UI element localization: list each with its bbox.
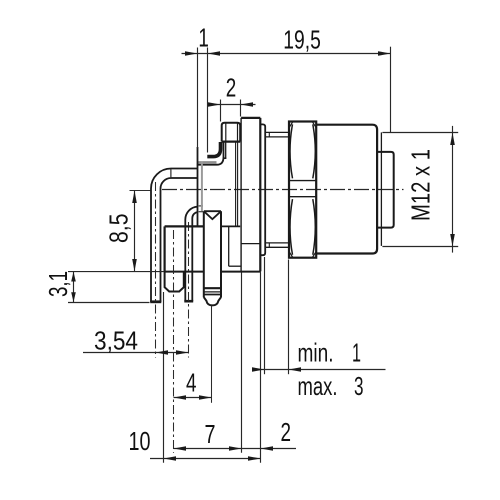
svg-text:3,1: 3,1 xyxy=(43,271,73,297)
insulator block left face xyxy=(164,226,166,271)
svg-text:M12 x 1: M12 x 1 xyxy=(406,149,436,221)
svg-text:1: 1 xyxy=(352,338,361,368)
front threaded body outline xyxy=(316,125,377,254)
arrow 10 right pointing right xyxy=(248,456,261,461)
neck junction ticks xyxy=(268,132,270,137)
hidden grey edge right of face xyxy=(201,162,203,212)
rear step small rect right of pin xyxy=(228,226,230,266)
dim 8,5 vertical line xyxy=(134,191,136,272)
ext line 1-left xyxy=(197,48,199,149)
svg-text:19,5: 19,5 xyxy=(283,24,321,54)
arrow 3,1 top pointing up xyxy=(71,272,76,282)
arrow 8,5 bottom pointing down xyxy=(132,259,137,272)
pin P2 bottom cap xyxy=(184,300,193,303)
bracket grey seam xyxy=(198,161,217,164)
arrow 3,1 bottom pointing down xyxy=(71,292,76,302)
insulator bottom edge thick xyxy=(164,271,203,273)
dim 2 top line xyxy=(208,104,256,106)
ext line 19,5-right xyxy=(390,47,392,132)
pin P2 centerline dash-dot xyxy=(188,222,190,358)
svg-text:10: 10 xyxy=(129,426,151,456)
ext line 2-left xyxy=(220,100,222,122)
neck double lines bottom xyxy=(265,242,289,244)
neck double lines top xyxy=(265,131,289,133)
dim M12 vertical line xyxy=(452,126,454,253)
arrow 8,5 top pointing up xyxy=(132,191,137,204)
dim 3,54 line xyxy=(83,352,189,354)
svg-text:max.: max. xyxy=(298,371,338,401)
dim min/max line xyxy=(252,369,386,371)
svg-text:8,5: 8,5 xyxy=(104,214,134,244)
arrow shared 1-right / 19,5-left pointing left xyxy=(208,51,221,56)
ext min/max left (lip face) xyxy=(264,257,266,374)
svg-text:3,54: 3,54 xyxy=(94,326,138,356)
arrow 19,5-right pointing right xyxy=(378,51,391,56)
arrow 2top-right outside pointing left xyxy=(241,102,254,107)
svg-text:min.: min. xyxy=(298,338,334,368)
hex nut facet lines xyxy=(289,180,316,182)
flange top edge xyxy=(241,117,260,119)
arrow 2top-left outside pointing right xyxy=(208,102,221,107)
arrow 7 left pointing left xyxy=(174,446,187,451)
bracket channel inner thick wall xyxy=(207,142,220,157)
ext min/max right (nut face) xyxy=(288,260,290,375)
arrow 4 left pointing left xyxy=(174,395,187,400)
pin P2 bent contact inner edge xyxy=(192,212,197,301)
bar tab-to-flange thin pair xyxy=(235,142,237,227)
svg-text:4: 4 xyxy=(186,368,197,398)
ext M12 top xyxy=(382,132,458,134)
shell front face vertical xyxy=(197,147,199,226)
dim 4 line xyxy=(174,397,212,399)
svg-text:2: 2 xyxy=(226,73,237,103)
arrow 4 right pointing right xyxy=(199,395,212,400)
arrow 1-left outside pointing right xyxy=(185,51,198,56)
pin P1 bent contact inner edge xyxy=(161,178,198,302)
ext 3,1 top (insulator bottom extended) xyxy=(68,271,164,273)
pin P4 interior lines xyxy=(204,287,221,289)
tab anti-rotation key outline xyxy=(222,123,241,142)
dim 10 line xyxy=(150,458,261,460)
ext bottom flange-right xyxy=(260,273,262,463)
bracket channel outer contour xyxy=(197,142,224,165)
svg-text:2: 2 xyxy=(281,417,292,447)
arrow 2bottom-right outside pointing left xyxy=(261,446,274,451)
tab bottom edge xyxy=(222,141,241,143)
pin P2 bent contact outer edge xyxy=(185,207,197,302)
ext line 2-right xyxy=(240,100,242,117)
svg-text:1: 1 xyxy=(198,23,209,53)
wire: centerline horizontal (left ext segment for 8,5) xyxy=(130,190,151,192)
ext bottom sub-tab-left xyxy=(163,292,165,463)
dim top line 1 / 19,5 xyxy=(182,53,391,55)
flange interior line xyxy=(241,243,260,245)
flange right face xyxy=(259,118,261,272)
svg-text:7: 7 xyxy=(205,419,216,449)
pin P4 rounded tip xyxy=(204,297,221,305)
tab interior vertical lines xyxy=(225,123,227,142)
contact pin P4 central outline with V notch xyxy=(204,210,221,212)
hex nut outline xyxy=(289,122,316,258)
arrow 10 left pointing left xyxy=(164,456,177,461)
thread boundary line xyxy=(380,132,382,246)
svg-text:3: 3 xyxy=(354,371,364,401)
front tip outline xyxy=(377,152,394,228)
ext bottom flange-left xyxy=(241,273,243,453)
arrow min/max right outside pointing left xyxy=(289,367,302,372)
flange left face xyxy=(240,118,242,272)
arrow 3,54 right pointing right xyxy=(176,350,189,355)
pin P1 bend tangent tick xyxy=(170,169,172,177)
arrow min/max left outside pointing right xyxy=(252,367,265,372)
pin P1 centerline dash-dot xyxy=(155,182,157,358)
pin P4 extension line down xyxy=(211,306,213,403)
ext M12 bottom xyxy=(382,246,458,248)
ext 3,1 bottom (pin tips) xyxy=(68,302,150,304)
pin P3 hidden centerline dash-dot xyxy=(173,230,175,453)
hex nut facet arcs xyxy=(290,124,293,178)
wire: main horizontal centerline dash-dot xyxy=(162,189,404,191)
arrow M12 top pointing up xyxy=(450,133,455,146)
arrow shared 7-right / 2bottom-left pointing right xyxy=(229,446,242,451)
ext line 1-right xyxy=(207,48,209,153)
arrow M12 bottom pointing down xyxy=(450,234,455,247)
bracket prong right wall xyxy=(225,142,227,158)
arrow 3,54 left pointing left xyxy=(156,350,169,355)
hex nut corner chamfers xyxy=(289,122,293,128)
dim 7 and 2 bottom line xyxy=(174,448,297,450)
pin P1 bottom cap xyxy=(150,300,161,303)
sub-tab chamfered nose below insulator xyxy=(165,272,184,292)
dim 3,1 vertical line xyxy=(73,272,75,303)
pin P2 hidden horizontal edges xyxy=(199,205,203,207)
insulator block top edge xyxy=(165,225,203,227)
lip gasket seat right of flange xyxy=(260,124,265,255)
pin P1 bent contact outer edge xyxy=(151,169,198,303)
